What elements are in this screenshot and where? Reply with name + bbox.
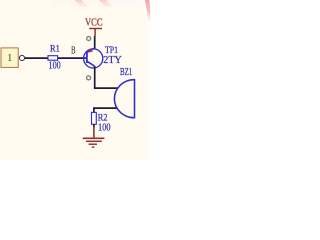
svg-text:VCC: VCC bbox=[85, 17, 103, 28]
pink arc top-right bbox=[145, 0, 150, 23]
wire: R1 to base bbox=[58, 57, 86, 59]
connector pin circle bbox=[19, 55, 24, 60]
transistor TP1 circle bbox=[84, 49, 103, 68]
svg-text:R1: R1 bbox=[50, 43, 60, 54]
white rounded corner top-right bbox=[134, 0, 160, 22]
pink streak 1 bbox=[75, 0, 89, 7]
transistor base bar bbox=[86, 51, 88, 63]
ground bar 1 bbox=[83, 137, 105, 139]
svg-text:BZ1: BZ1 bbox=[120, 67, 132, 78]
white strip right edge bbox=[148, 0, 161, 160]
wire: VCC to transistor emitter bbox=[94, 36, 96, 49]
ground bar 2 bbox=[86, 140, 102, 142]
ground stem bbox=[93, 127, 95, 139]
grey pin hotspot ring (collector) bbox=[87, 76, 91, 80]
wire: connector pin to transistor base (node B) bbox=[25, 57, 48, 59]
grey pin hotspot ring (emitter) bbox=[87, 37, 91, 41]
buzzer BZ1 shape bbox=[114, 79, 134, 118]
svg-text:B: B bbox=[71, 46, 76, 57]
ground bar 4 bbox=[92, 146, 95, 148]
wire: transistor collector down bbox=[94, 66, 96, 88]
pink streak 2 bbox=[99, 0, 113, 7]
svg-text:100: 100 bbox=[98, 123, 111, 134]
transistor emitter lead bbox=[87, 48, 94, 52]
ground bar 3 bbox=[89, 143, 97, 145]
svg-text:100: 100 bbox=[49, 61, 61, 72]
connector J1 body bbox=[1, 48, 18, 68]
background sheet bbox=[0, 0, 160, 160]
VCC bar bbox=[89, 28, 102, 30]
wire: buzzer bottom pin left bbox=[94, 107, 117, 109]
svg-text:1: 1 bbox=[7, 53, 12, 64]
transistor emitter arrow (PNP) bbox=[88, 48, 93, 52]
resistor R1 body bbox=[48, 56, 58, 61]
faint white band top bbox=[52, 0, 148, 7]
wire: R2 to ground bbox=[93, 124, 95, 127]
wire: to buzzer top pin bbox=[94, 87, 119, 89]
resistor R2 body bbox=[92, 112, 97, 124]
transistor base pin bbox=[85, 57, 87, 59]
VCC stem bbox=[94, 29, 96, 37]
wire: down to R2 bbox=[93, 107, 95, 112]
transistor collector lead bbox=[87, 62, 94, 67]
svg-text:2TY: 2TY bbox=[103, 55, 122, 66]
